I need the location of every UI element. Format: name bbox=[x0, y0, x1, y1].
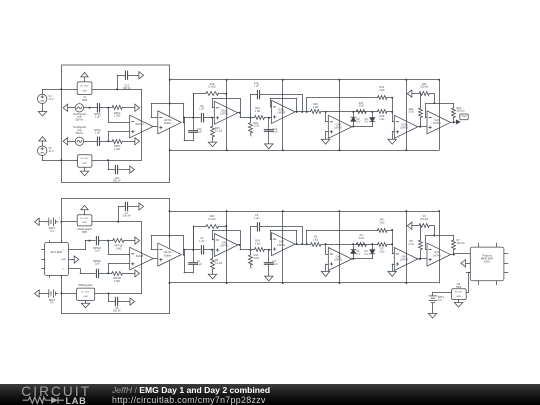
svg-text:1 kΩ: 1 kΩ bbox=[379, 118, 384, 121]
node: rail junction bbox=[226, 79, 228, 81]
svg-text:1 µF: 1 µF bbox=[199, 108, 205, 111]
wire negative supply rail bbox=[170, 150, 439, 152]
ground below R15 bbox=[208, 271, 216, 279]
node: R15 tap bbox=[211, 117, 213, 119]
wire R19/R18 to opD minus bbox=[392, 98, 394, 122]
node: rail junction bbox=[226, 210, 228, 212]
svg-text:INA2B: INA2B bbox=[136, 254, 144, 258]
capacitor NPF2C 1uF bbox=[93, 260, 101, 278]
wire cap2 to resistor bbox=[99, 141, 112, 143]
capacitor C12 100nF bbox=[123, 71, 139, 90]
op-amp GA1 bbox=[328, 248, 352, 271]
svg-text:V-: V- bbox=[62, 269, 64, 271]
resistor R22 (open stub) bbox=[249, 118, 259, 136]
node: opD output bbox=[419, 258, 421, 260]
node: feedback-box crossing b bbox=[169, 235, 171, 237]
Arduino MKR WiFi 1010 box bbox=[466, 243, 508, 285]
node: D3 top bbox=[352, 111, 354, 113]
capacitor NPF1C 1uF bbox=[93, 236, 101, 252]
svg-text:100 kΩ: 100 kΩ bbox=[420, 86, 428, 89]
node: stage2 plus node bbox=[268, 249, 270, 251]
svg-text:+: + bbox=[59, 217, 61, 220]
INA supply drop bbox=[141, 89, 143, 160]
wire row1 drop to INA minus bbox=[108, 108, 129, 123]
port arrow row2 b bbox=[135, 270, 140, 277]
node: top rail depart bbox=[169, 79, 171, 81]
node: rail junction bottom bbox=[226, 282, 228, 284]
power flag over V5 bbox=[39, 137, 46, 146]
+9V regulator U4 bbox=[77, 215, 93, 234]
svg-text:2 kΩ: 2 kΩ bbox=[379, 89, 384, 92]
voltage source V4 bbox=[38, 89, 62, 103]
svg-text:1010: 1010 bbox=[484, 260, 491, 264]
node: NPF2 left junction bbox=[107, 107, 109, 109]
stage2 minus loop bbox=[270, 231, 297, 245]
wire U5 out row bbox=[95, 293, 142, 295]
ground below U5 bbox=[81, 300, 89, 307]
svg-text:Buffer: Buffer bbox=[164, 253, 171, 257]
node: C12 tap bbox=[116, 88, 118, 90]
wire positive supply rail bbox=[170, 211, 439, 213]
capacitor C4 to ground bbox=[264, 250, 278, 276]
node: buffer output bbox=[183, 254, 185, 256]
node: opD minus tap bbox=[391, 243, 393, 245]
svg-text:LM741: LM741 bbox=[334, 258, 342, 262]
node: opC out bbox=[352, 126, 354, 128]
node: feedback row bbox=[433, 102, 435, 104]
diode D2 bbox=[365, 244, 375, 259]
svg-text:5.1 kΩ: 5.1 kΩ bbox=[215, 130, 222, 133]
svg-text:7805: 7805 bbox=[82, 99, 88, 102]
node: R19 right bbox=[391, 97, 393, 99]
node: R16 right bbox=[225, 225, 227, 227]
port arrow row1 b bbox=[135, 237, 140, 244]
port arrow feedback tap bbox=[407, 90, 419, 97]
node: rail junction bbox=[282, 79, 284, 81]
svg-text:IN OUT: IN OUT bbox=[80, 86, 89, 88]
svg-text:100 kΩ: 100 kΩ bbox=[457, 110, 465, 113]
wire positive supply rail bbox=[170, 79, 439, 81]
node: R19 right bbox=[391, 229, 393, 231]
node: stage2 input node bbox=[250, 117, 252, 119]
node: V5 rail junction bbox=[60, 159, 62, 161]
wire row2 rise to INA plus bbox=[108, 132, 129, 142]
wire buffer-out vertical bbox=[184, 250, 194, 273]
op-amp GA11 stage2 bbox=[272, 100, 296, 123]
wire row1 drop to INA2 minus bbox=[108, 241, 130, 255]
node: NPF1B junction bbox=[107, 240, 109, 242]
node: C8 tap bbox=[108, 293, 110, 295]
svg-text:LM741: LM741 bbox=[277, 111, 285, 115]
svg-text:1 MΩ: 1 MΩ bbox=[114, 148, 120, 151]
node: stage2 output nodes bbox=[296, 111, 308, 113]
node: stage1 node A bbox=[183, 249, 194, 251]
wire Arduino pin3 to 7805 bbox=[466, 273, 470, 293]
svg-text:LM741: LM741 bbox=[433, 253, 441, 257]
svg-text:IN OUT: IN OUT bbox=[80, 158, 89, 160]
svg-text:1 µF: 1 µF bbox=[199, 240, 205, 243]
capacitor C7 100nF bbox=[123, 202, 139, 217]
svg-text:GND: GND bbox=[83, 296, 88, 298]
svg-text:9 V: 9 V bbox=[438, 299, 442, 302]
wire stage1 out bbox=[238, 113, 251, 118]
opC plus to ground bbox=[326, 132, 329, 140]
node: rail junction bottom bbox=[282, 282, 284, 284]
node: opD minus tap bbox=[391, 111, 393, 113]
capacitor NPF3 1uF bbox=[94, 129, 101, 146]
node: C10dec tap bbox=[107, 159, 109, 161]
stage1 feedback box bbox=[212, 226, 240, 250]
svg-text:0 V: 0 V bbox=[357, 253, 361, 256]
capacitor C2 (series input) bbox=[189, 260, 203, 266]
node: feedback-box crossing bbox=[169, 103, 171, 105]
op-amp GA2 bbox=[394, 248, 418, 271]
opE feedback box bbox=[426, 103, 454, 117]
capacitor C9 bbox=[199, 105, 205, 122]
diode D3 bbox=[351, 112, 361, 127]
ground below LM7805 bbox=[454, 300, 462, 308]
svg-text:1 kΩ: 1 kΩ bbox=[254, 257, 259, 260]
opC plus to ground bbox=[326, 264, 329, 271]
svg-text:12 V: 12 V bbox=[49, 98, 54, 101]
port arrow BAT3 bbox=[35, 290, 47, 297]
svg-text:LM741: LM741 bbox=[220, 112, 228, 116]
resistor R7 bbox=[452, 236, 465, 255]
op-amp INA2B bbox=[130, 247, 153, 270]
node: opE output bbox=[453, 121, 455, 123]
wire to opC minus bbox=[326, 244, 329, 254]
node: bottom rail depart b bbox=[169, 282, 171, 284]
ground below opD bbox=[388, 139, 396, 144]
port arrow after C10dec bbox=[130, 166, 135, 173]
ground below U2 bbox=[80, 167, 88, 175]
svg-text:LM741: LM741 bbox=[400, 126, 408, 130]
svg-text:0 V: 0 V bbox=[365, 121, 369, 124]
ground below opD bbox=[388, 271, 396, 276]
capacitor C14 to ground bbox=[264, 118, 278, 144]
wire U2 out row bbox=[92, 160, 141, 162]
port arrow row2 bbox=[135, 138, 140, 145]
opE feedback box bbox=[426, 236, 454, 250]
svg-text:Vout: Vout bbox=[461, 115, 466, 118]
node: rail junction bbox=[438, 79, 440, 81]
svg-text:IN OUT: IN OUT bbox=[80, 218, 89, 220]
diode D1 bbox=[351, 244, 361, 259]
opD supply drop bbox=[406, 80, 408, 151]
node: stage1 output bbox=[239, 112, 241, 114]
node: D4 top bbox=[371, 243, 373, 245]
opE supply drop bbox=[439, 80, 441, 151]
svg-text:2 kΩ: 2 kΩ bbox=[313, 106, 318, 109]
wire BAT3 row to U5 bbox=[61, 293, 76, 295]
node: C7 tap bbox=[117, 221, 119, 223]
resistor R3 bbox=[419, 215, 434, 228]
node: opE output bbox=[453, 254, 455, 256]
resistor R14 bbox=[251, 239, 272, 251]
svg-text:LM741: LM741 bbox=[334, 126, 342, 130]
node: feedback row bbox=[433, 235, 435, 237]
node: rail junction bottom bbox=[338, 149, 340, 151]
op-amp GA3 final bbox=[427, 243, 451, 266]
power flag over regulator U4 bbox=[81, 205, 88, 214]
capacitor C3 bbox=[199, 237, 205, 254]
svg-text:0 V: 0 V bbox=[357, 121, 361, 124]
signal source TestSignal1 bbox=[63, 104, 97, 122]
resistor R23 bbox=[251, 107, 272, 119]
node: rail junction bbox=[405, 210, 407, 212]
outer supply box (bottom circuit) bbox=[62, 199, 170, 314]
op-amp GA7 stage2 bbox=[272, 233, 296, 256]
svg-text:2 kΩ: 2 kΩ bbox=[408, 111, 413, 114]
svg-text:IN OUT: IN OUT bbox=[81, 292, 90, 294]
svg-text:2 kΩ: 2 kΩ bbox=[359, 105, 364, 108]
svg-text:1 MΩ: 1 MΩ bbox=[114, 115, 120, 118]
outer supply box (top circuit) bbox=[62, 65, 170, 183]
svg-text:5.1 kΩ: 5.1 kΩ bbox=[215, 262, 222, 265]
wire opD out to opE plus bbox=[418, 258, 427, 260]
node: rail junction bbox=[338, 210, 340, 212]
wire negative supply rail bbox=[170, 282, 439, 284]
capacitor C11 feedback bbox=[251, 82, 303, 118]
resistor R2 bbox=[372, 243, 392, 254]
node: stage2 output nodes bbox=[296, 243, 308, 245]
wire to opC minus bbox=[326, 112, 329, 122]
port arrow after C12 bbox=[139, 72, 144, 79]
opD plus to ground bbox=[392, 132, 394, 140]
svg-text:2 kΩ: 2 kΩ bbox=[379, 221, 384, 224]
wire down to C8 bbox=[109, 294, 116, 302]
wire U4 out row bbox=[92, 221, 141, 223]
op-amp GA12 stage1 bbox=[214, 101, 238, 124]
svg-text:1 µF: 1 µF bbox=[254, 217, 260, 220]
capacitor NPF1 1uF bbox=[94, 104, 101, 119]
wire ECG V- to row2 bbox=[69, 269, 96, 274]
opE supply drop bbox=[439, 211, 441, 283]
resistor R13 (open stub) bbox=[249, 250, 259, 268]
resistor R6 to ground bbox=[211, 250, 223, 271]
buffer2 feedback loop bbox=[151, 236, 184, 255]
rail-splitter IC U2 bbox=[78, 155, 92, 168]
node: top rail depart b bbox=[169, 210, 171, 212]
svg-text:1 kΩ: 1 kΩ bbox=[254, 125, 259, 128]
ECG GND port arrow bbox=[69, 256, 79, 263]
op-amp GA10 bbox=[394, 115, 418, 138]
resistor R18 bbox=[372, 110, 392, 122]
svg-text:1 µF: 1 µF bbox=[94, 263, 100, 266]
node: rail junction bottom bbox=[338, 282, 340, 284]
resistor R24 bbox=[408, 94, 422, 127]
Vout node flag bbox=[456, 114, 468, 124]
op-amp LM741 buffer U6 bbox=[158, 243, 182, 266]
op-amp INA217 bbox=[130, 115, 153, 138]
battery BAT3 9V bbox=[47, 290, 58, 305]
svg-text:GND: GND bbox=[456, 296, 461, 298]
node: rail junction bottom bbox=[405, 282, 407, 284]
opC supply drop bbox=[339, 80, 341, 151]
wire opD out to opE plus bbox=[418, 126, 427, 128]
stage2 supply drop bbox=[282, 211, 284, 283]
wire BAT4 row to U4 bbox=[61, 221, 77, 223]
svg-text:0 V: 0 V bbox=[365, 253, 369, 256]
svg-text:7805: 7805 bbox=[82, 231, 88, 234]
ground below C14 bbox=[265, 144, 273, 149]
port arrow feedback tap bbox=[407, 222, 419, 229]
node: buffer output bbox=[183, 121, 185, 123]
wire INA out to buffer bbox=[153, 126, 158, 128]
resistor R20 bbox=[311, 103, 326, 113]
svg-text:GND: GND bbox=[61, 259, 66, 261]
node: stage1 node A bbox=[183, 117, 194, 119]
svg-text:LM741: LM741 bbox=[400, 258, 408, 262]
power flag over rail-splitter U1 bbox=[81, 73, 88, 82]
battery BAT1 9V bbox=[429, 296, 445, 303]
node: rail junction bottom bbox=[282, 149, 284, 151]
wire V5 row to U2 bbox=[61, 160, 77, 162]
wire R19/R18 to opD minus bbox=[392, 230, 394, 254]
ground below R15 bbox=[208, 139, 216, 147]
wire node row bbox=[184, 249, 200, 251]
svg-text:1 µF: 1 µF bbox=[273, 263, 279, 266]
svg-text:DiffRegulator: DiffRegulator bbox=[78, 284, 93, 287]
ground below opC bbox=[321, 139, 329, 144]
node: rail junction bottom bbox=[405, 149, 407, 151]
op-amp LM741 buffer U3 bbox=[158, 111, 182, 134]
wire buffer-out vertical bbox=[184, 118, 194, 141]
svg-text:2 kΩ: 2 kΩ bbox=[313, 238, 318, 241]
svg-text:ECG EMG: ECG EMG bbox=[51, 251, 63, 254]
stage1 feedback box bbox=[212, 94, 240, 118]
wire ECG V+ to row1 bbox=[69, 241, 96, 250]
wire 7805 in to BAT1 bbox=[433, 292, 452, 295]
wire C9 to opamp bbox=[204, 249, 215, 251]
node: rail junction bbox=[282, 210, 284, 212]
svg-text:1 kΩ: 1 kΩ bbox=[255, 110, 260, 113]
wire diode top row bbox=[326, 244, 373, 246]
svg-text:INA217: INA217 bbox=[135, 122, 144, 126]
wire up to C12 bbox=[117, 75, 125, 89]
node: V4 rail junction bbox=[60, 88, 62, 90]
node: row1 junction b bbox=[88, 240, 90, 242]
svg-text:7805: 7805 bbox=[456, 286, 462, 289]
-9V regulator U5 bbox=[77, 284, 95, 300]
wire U1 out row bbox=[92, 89, 141, 91]
svg-text:5.1 kΩ: 5.1 kΩ bbox=[208, 218, 215, 221]
svg-text:500 Hz: 500 Hz bbox=[76, 119, 85, 122]
svg-text:LM741: LM741 bbox=[220, 244, 228, 248]
capacitor C8 100nF bbox=[113, 297, 130, 312]
svg-text:1 MΩ: 1 MΩ bbox=[114, 280, 120, 283]
wire C9 to opamp bbox=[204, 117, 215, 119]
svg-text:1 µF: 1 µF bbox=[273, 131, 279, 134]
svg-text:1 kΩ: 1 kΩ bbox=[379, 250, 384, 253]
svg-text:2 kΩ: 2 kΩ bbox=[408, 243, 413, 246]
svg-text:100 nF: 100 nF bbox=[113, 179, 121, 183]
node: BAT4 box junction bbox=[60, 221, 62, 223]
capacitor C10 100nF decoupling bbox=[113, 165, 130, 182]
INA2 supply drop bbox=[141, 222, 143, 294]
wire node row bbox=[184, 117, 200, 119]
svg-text:100 nF: 100 nF bbox=[113, 310, 121, 313]
node: bottom rail depart bbox=[169, 149, 171, 151]
ground below opC bbox=[321, 271, 329, 276]
resistor R19 top feedback bbox=[307, 86, 393, 112]
CircuitLab logo bbox=[0, 383, 110, 405]
svg-text:5.1 kΩ: 5.1 kΩ bbox=[208, 86, 215, 89]
node: rail junction bottom bbox=[226, 149, 228, 151]
wire diode top row bbox=[326, 111, 373, 113]
wire opE out to Vout bbox=[451, 121, 457, 124]
wire down to C10dec bbox=[108, 160, 115, 169]
node: BAT3 box junction bbox=[60, 293, 62, 295]
node: D4 top bbox=[371, 111, 373, 113]
wire INA2 out to buffer2 bbox=[153, 258, 158, 260]
wire cap up to node row bbox=[193, 226, 195, 263]
node: rail junction bbox=[338, 79, 340, 81]
op-amp GA6 stage1 bbox=[214, 234, 238, 257]
wire V5 row bbox=[42, 155, 61, 160]
resistor R8 bbox=[408, 226, 422, 259]
capacitor C10 (series input) bbox=[189, 128, 203, 134]
node: row2 junction bbox=[107, 140, 109, 142]
node: D3 top bbox=[352, 243, 354, 245]
resistor R25 bbox=[452, 103, 465, 122]
port arrow row1 bbox=[135, 104, 140, 111]
svg-text:100 kΩ: 100 kΩ bbox=[420, 218, 428, 221]
resistor R1 bbox=[356, 234, 366, 247]
svg-text:GND: GND bbox=[82, 163, 87, 165]
ground below BAT1 bbox=[428, 311, 436, 319]
buffer feedback loop bbox=[151, 104, 184, 123]
signal source TestSignal2 bbox=[63, 126, 97, 145]
wire stage2 out bbox=[295, 244, 311, 246]
svg-text:Buffer: Buffer bbox=[164, 121, 171, 125]
svg-text:GND: GND bbox=[82, 222, 87, 224]
wire diode bottom row bbox=[352, 258, 373, 260]
svg-text:LM741: LM741 bbox=[277, 243, 285, 247]
footer bar bbox=[0, 384, 540, 405]
stage2 minus loop bbox=[270, 98, 297, 112]
resistor R21 bbox=[419, 83, 434, 96]
resistor R10 feedback bbox=[193, 215, 226, 250]
svg-text:1 µF: 1 µF bbox=[94, 250, 100, 253]
resistor NPF2 1MOhm bbox=[112, 106, 135, 118]
wire V4 row to U1 bbox=[61, 89, 77, 91]
node: stage1 output bbox=[239, 244, 241, 246]
wire R21 down to feedback row bbox=[434, 226, 436, 236]
wire row2 rise to INA2 plus bbox=[108, 264, 130, 274]
svg-text:1 µF: 1 µF bbox=[197, 131, 203, 134]
node: opD output bbox=[419, 126, 421, 128]
svg-text:2 kΩ: 2 kΩ bbox=[359, 237, 364, 240]
svg-text:GND: GND bbox=[82, 91, 87, 93]
resistor NPF2B 1MOhm bbox=[112, 272, 135, 284]
wire stage1 out bbox=[238, 245, 251, 250]
svg-text:100 kΩ: 100 kΩ bbox=[457, 242, 465, 245]
wire opE-b out to Arduino bbox=[451, 254, 471, 255]
resistor R17 bbox=[356, 102, 366, 114]
diode D4 bbox=[365, 112, 375, 127]
opC supply drop bbox=[339, 211, 341, 283]
node: rail junction bbox=[438, 210, 440, 212]
wire R21 down to feedback row bbox=[434, 94, 436, 104]
svg-text:LM741: LM741 bbox=[433, 121, 441, 125]
opD plus to ground bbox=[392, 264, 394, 271]
stage1 supply drop bbox=[226, 80, 228, 151]
svg-text:1 µF: 1 µF bbox=[254, 85, 260, 88]
capacitor C5 feedback bbox=[251, 214, 303, 250]
ECG-EMG electrode box bbox=[42, 241, 69, 278]
resistor R5 bbox=[311, 235, 326, 246]
